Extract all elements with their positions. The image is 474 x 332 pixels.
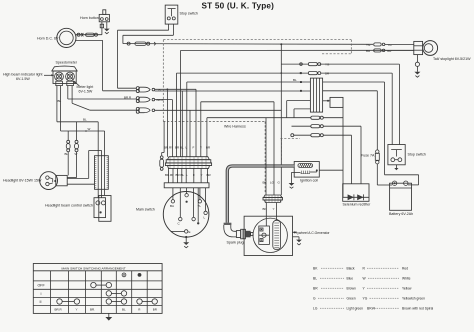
speedometer M1 — [52, 66, 77, 83]
ground: tail light — [414, 72, 420, 78]
svg-text:Ignition coil: Ignition coil — [300, 179, 318, 183]
wire: horn lower run — [76, 40, 103, 90]
headlight beam control switch SW5 — [94, 196, 111, 222]
svg-text:Light green: Light green — [347, 307, 364, 311]
wire: BL drop to sleeve — [97, 122, 99, 156]
svg-text:BL: BL — [83, 118, 87, 122]
wire: branch to rear stop loop — [280, 43, 399, 195]
generator lower wire labels — [263, 207, 275, 211]
svg-text:BR: BR — [313, 287, 318, 291]
coupler pin labels (upper) — [164, 146, 211, 150]
harness sleeve (hatched) — [95, 156, 109, 190]
wire: y100 right exit to rectifier-left riser — [323, 97, 343, 197]
wire: BR.R bus to coupler pin2 — [155, 100, 173, 157]
svg-text:BA: BA — [170, 204, 174, 208]
svg-text:YG: YG — [387, 43, 392, 47]
selenium rectifier D1 — [343, 184, 369, 202]
wire: y73 to rear stop switch — [321, 73, 392, 144]
bullet connector row y73 — [300, 72, 330, 76]
svg-text:E: E — [189, 230, 191, 234]
wire: pin7/generator bus — [201, 102, 274, 157]
svg-text:YG: YG — [366, 43, 371, 47]
wire: tail feed bus (BR) — [181, 50, 414, 156]
svg-text:F: F — [193, 173, 195, 177]
ground arrow under table — [105, 313, 112, 320]
coupler pin wires (lower) — [169, 168, 208, 182]
wire: sleeve to dimmer switch — [98, 189, 104, 197]
wire: headlight to sleeve — [67, 151, 101, 185]
spark plug P1 — [241, 229, 253, 239]
svg-text:Brown: Brown — [347, 287, 357, 291]
wire: pin6 bus (y82) — [187, 78, 311, 157]
tail/stoplight bulb LP4 — [414, 41, 438, 56]
wire: block row y100.6 branch — [287, 101, 311, 118]
wire: front stop switch left pin loop — [118, 24, 169, 88]
svg-text:Y: Y — [201, 173, 203, 177]
wire: speedo bulb leads — [57, 86, 72, 131]
connector block (4 pole) — [310, 78, 322, 112]
ignition coil T1 — [294, 162, 319, 178]
wire: fuse to battery minus — [377, 184, 392, 186]
svg-text:White: White — [402, 277, 411, 281]
main switch SW3 body — [163, 192, 209, 238]
svg-text:LG: LG — [313, 307, 318, 311]
tail light connectors — [366, 43, 392, 53]
svg-text:Black: Black — [347, 267, 355, 271]
wire: riser from y110 bus to coupler — [189, 110, 191, 157]
svg-text:6V-1.5W: 6V-1.5W — [79, 90, 93, 94]
svg-text:BR.R: BR.R — [367, 307, 375, 311]
horn H1 — [57, 28, 76, 47]
meter light label — [74, 81, 94, 94]
svg-text:BL: BL — [181, 173, 185, 177]
svg-text:MAIN SWITCH SWITCHING ARRANGEM: MAIN SWITCH SWITCHING ARRANGEMENT — [62, 266, 126, 270]
table row labels — [38, 284, 46, 304]
wire: pin8/generator bus (y117.7) — [207, 118, 311, 157]
wire: loopback row y108.9 — [294, 109, 310, 118]
generator coupler J2 — [263, 195, 283, 203]
svg-text:W: W — [88, 127, 91, 131]
svg-text:TL: TL — [198, 204, 202, 208]
ground: main switch — [183, 236, 189, 248]
svg-text:Headlight beam control switch: Headlight beam control switch — [45, 204, 93, 208]
table I row contacts — [106, 291, 127, 296]
svg-text:BK: BK — [263, 181, 267, 185]
headlight bullet connectors — [65, 140, 79, 156]
svg-text:Main switch: Main switch — [136, 208, 155, 212]
svg-text:BL: BL — [58, 99, 62, 103]
spark plug cap — [224, 223, 241, 238]
flywheel AC generator G1 — [244, 216, 292, 255]
generator coupler lower wires — [266, 203, 276, 227]
generator wires (risers) — [266, 102, 274, 195]
main switch terminals — [170, 194, 207, 226]
svg-text:High beam indicator light: High beam indicator light — [3, 73, 43, 77]
dashed wire harness boundary — [163, 40, 351, 193]
svg-text:BL: BL — [293, 78, 297, 82]
wire: lighting bus A to coupler pin — [155, 89, 196, 156]
wire to tail — [385, 44, 414, 50]
svg-text:ST 50 (U. K. Type): ST 50 (U. K. Type) — [202, 2, 275, 11]
ground: rear stop switch stub — [394, 165, 398, 170]
generator coil capsule — [273, 220, 281, 249]
wire: pin5 bus to rear (y73) — [177, 72, 309, 157]
generator wire labels — [263, 181, 281, 185]
svg-text:Tail/ stoplight 6V-5/21W: Tail/ stoplight 6V-5/21W — [433, 57, 471, 61]
main switch top plate — [164, 183, 209, 188]
meter light bulb LP2 — [66, 72, 75, 86]
svg-text:Yellowish green: Yellowish green — [402, 297, 425, 301]
bullet connector row y117.7 — [311, 116, 324, 119]
bullet connector row y64 — [300, 63, 330, 67]
svg-text:BL: BL — [313, 277, 317, 281]
svg-text:BR.R: BR.R — [55, 308, 63, 312]
svg-text:Green: Green — [347, 297, 356, 301]
ground: ignition coil — [289, 172, 301, 188]
wire: y126.2 to rectifier — [323, 126, 361, 184]
wire: stoplight feed bus (YG) — [123, 43, 373, 46]
svg-text:BR.R: BR.R — [124, 95, 132, 99]
svg-text:Stop switch: Stop switch — [180, 12, 198, 16]
coupler pin labels (lower) — [165, 173, 212, 177]
main switch table — [33, 264, 162, 314]
generator label — [293, 231, 331, 235]
svg-text:BK: BK — [263, 207, 267, 211]
svg-text:YG: YG — [363, 297, 368, 301]
svg-text:YG: YG — [325, 63, 330, 67]
svg-text:Stop switch: Stop switch — [408, 153, 426, 157]
wire: coupler pin1 riser from lighting bus — [167, 88, 169, 156]
main switch terminal stubs — [173, 188, 206, 222]
wire: brake bullet drop (left of coupler) — [162, 122, 164, 156]
main switch coupler J1 — [165, 157, 211, 169]
svg-text:W: W — [75, 152, 78, 156]
vertical bullet connector at coupler left — [160, 156, 164, 170]
horn button SW1 — [99, 10, 109, 22]
wire: meter light to BR.R bus — [68, 98, 137, 100]
wire: horn upper to horn button — [76, 22, 104, 35]
stop switch (front) SW2 — [165, 5, 178, 24]
svg-text:Blue: Blue — [347, 277, 354, 281]
contact breaker assembly — [259, 226, 270, 244]
svg-text:Red: Red — [402, 267, 408, 271]
svg-text:OFF: OFF — [38, 284, 46, 288]
wire: lighting bus B to generator/block — [155, 90, 311, 92]
svg-text:BR.: BR. — [90, 308, 95, 312]
wire: BL headlamp feed — [57, 118, 98, 122]
color code legend — [313, 267, 433, 311]
connector on stoplight bus — [127, 42, 155, 45]
svg-text:6V-1.5W: 6V-1.5W — [16, 77, 30, 81]
ground: generator — [293, 237, 302, 245]
svg-text:F: F — [193, 146, 195, 150]
svg-text:Fuse 7A: Fuse 7A — [361, 154, 375, 158]
svg-text:Flywheel A.C.Generator: Flywheel A.C.Generator — [295, 231, 331, 235]
svg-text:Yellow: Yellow — [402, 287, 412, 291]
wire: y82 to battery plus — [323, 82, 419, 185]
svg-text:BL: BL — [180, 146, 184, 150]
svg-text:B: B — [159, 88, 161, 92]
fuse F1 — [361, 150, 379, 185]
svg-text:Battery 6V-2Ah: Battery 6V-2Ah — [389, 212, 413, 216]
wire: dimmer to headlight connectors — [68, 122, 76, 178]
bullet connector row y126.2 — [292, 125, 324, 128]
svg-text:Speedometer: Speedometer — [56, 61, 78, 65]
wire: speedo to headlight bus (diagonal) — [72, 103, 136, 110]
svg-text:Wire Harness: Wire Harness — [224, 125, 246, 129]
battery BT1 — [390, 181, 412, 210]
svg-text:Spark plug: Spark plug — [227, 241, 244, 245]
svg-text:Selenium rectifier: Selenium rectifier — [343, 203, 372, 207]
svg-text:Y: Y — [171, 146, 173, 150]
svg-text:I: I — [41, 292, 42, 296]
table OFF row contacts — [91, 282, 112, 287]
svg-text:Horn button: Horn button — [80, 16, 99, 20]
wire: W dimmer feed — [61, 127, 105, 156]
wire: y117.7 to rectifier-left riser — [323, 117, 343, 119]
svg-text:II: II — [40, 300, 42, 304]
wire: tail light ground lead — [415, 55, 419, 72]
big connector pair (horn + dimmer feed) — [136, 87, 160, 93]
svg-text:Headlight 6V-15W/ 15W: Headlight 6V-15W/ 15W — [3, 179, 42, 183]
table symbol row — [122, 273, 141, 277]
table II row contacts — [57, 299, 158, 304]
wire: y135.2 to rectifier — [323, 135, 351, 184]
connector pair on horn wire — [77, 33, 97, 36]
headlight LP3 — [40, 172, 68, 190]
stop switch (rear) SW4 — [388, 145, 405, 165]
svg-text:Y: Y — [76, 308, 78, 312]
svg-text:LG: LG — [270, 181, 275, 185]
wire: y110 bus to rear riser — [155, 109, 282, 111]
high beam indicator bulb LP1 — [55, 72, 64, 86]
svg-text:Brown with red Spiral: Brown with red Spiral — [402, 307, 433, 311]
connector BR.R row — [124, 95, 165, 102]
svg-text:Horn D.C. 6V: Horn D.C. 6V — [37, 37, 59, 41]
table column labels — [55, 308, 158, 312]
connector row y110 — [136, 107, 154, 113]
svg-text:Y: Y — [273, 207, 275, 211]
wire: tail bus drop twin — [181, 91, 183, 157]
wire: front stop switch right pin loop — [123, 24, 173, 43]
svg-text:Y: Y — [172, 173, 174, 177]
wire: horn bus entering connector — [103, 90, 137, 92]
svg-text:Y: Y — [200, 146, 202, 150]
wire: ignition coil output to riser — [319, 170, 343, 197]
ground: horn button — [104, 22, 110, 34]
svg-text:G: G — [313, 297, 316, 301]
wire: y90 through block to fuse — [300, 90, 377, 150]
bullet connector row y135.2 — [291, 134, 324, 137]
svg-text:BL: BL — [122, 308, 126, 312]
main switch E terminal — [171, 230, 191, 234]
high beam indicator label — [3, 73, 54, 82]
high tension cable — [227, 166, 294, 223]
